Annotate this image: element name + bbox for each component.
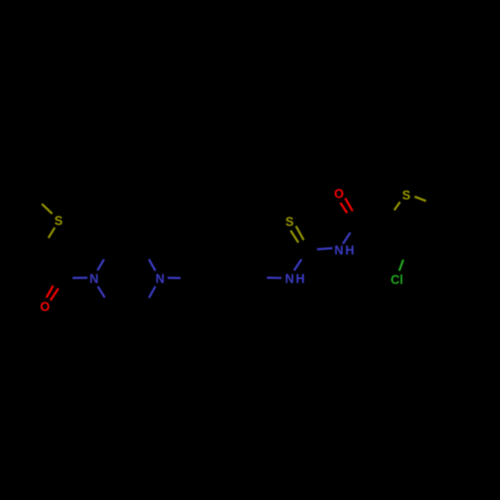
wire carbonyl2 C=O double line b [345, 198, 352, 211]
wire carbonyl1 C=O double line b [50, 288, 58, 300]
svg-text:N: N [155, 272, 164, 286]
wire N1 down-right half [98, 286, 105, 297]
wire amide C-N1 half [73, 277, 88, 279]
wire thiophene2 S-C2 half [394, 202, 400, 210]
wire N1 up-right half [97, 259, 104, 270]
wire C3-Cl half [399, 260, 403, 271]
svg-text:O: O [40, 300, 50, 314]
wire phenyl-NH1 half [267, 277, 282, 279]
wire thiourea C-NH2 half [317, 248, 333, 249]
svg-text:Cl: Cl [391, 273, 404, 287]
svg-text:N: N [285, 272, 294, 286]
wire NH1-thiourea C half [294, 259, 302, 270]
wire N2 down-left half [149, 286, 156, 297]
svg-text:O: O [334, 187, 344, 201]
wire thiourea C=S double line a [291, 231, 299, 243]
wire thiophene1 S-C2 bond lower half [48, 228, 54, 239]
wire thiophene1 C5-S bond upper half [42, 204, 52, 214]
svg-text:N: N [334, 244, 343, 258]
svg-text:S: S [54, 214, 62, 228]
svg-text:H: H [345, 244, 354, 258]
wire NH2-carbonyl2 half [343, 233, 351, 244]
svg-text:N: N [89, 272, 98, 286]
wire N2-phenyl half [168, 277, 181, 279]
wire thiophene2 S-C7a half [415, 197, 426, 201]
svg-text:H: H [296, 272, 305, 286]
svg-text:S: S [285, 215, 293, 229]
wire carbonyl2 C=O double line a [340, 203, 347, 213]
svg-text:S: S [402, 189, 410, 203]
wire thiourea C=S double line b [296, 226, 304, 240]
wire carbonyl1 C=O double line a [46, 286, 53, 298]
wire N2 up-left half [149, 259, 156, 271]
